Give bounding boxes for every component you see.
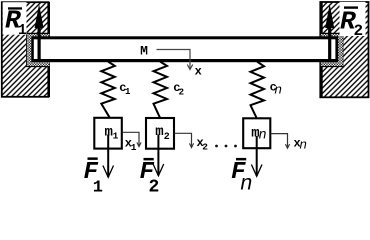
svg-text:1: 1 [131, 142, 137, 153]
svg-text:2: 2 [354, 22, 364, 40]
notch right (gap in wall) [321, 33, 344, 67]
x axis arrow of beam [157, 50, 202, 79]
svg-text:2: 2 [164, 132, 170, 143]
mass m1 box [94, 118, 122, 149]
spring cn [251, 62, 265, 118]
svg-text:2: 2 [179, 87, 184, 97]
displacement arrow x2 [175, 133, 209, 152]
mass m2 box [146, 118, 174, 149]
label c1 [119, 81, 131, 97]
label R2 [340, 2, 366, 40]
wall support right [320, 2, 368, 98]
force F2 arrow [153, 135, 164, 176]
reaction force R1 (arrow) [35, 4, 44, 61]
svg-text:n: n [274, 82, 282, 97]
beam [31, 36, 338, 62]
label c2 [173, 81, 184, 97]
svg-text:n: n [259, 129, 267, 144]
svg-text:1: 1 [113, 131, 119, 142]
displacement arrow x1 [123, 132, 142, 153]
svg-text:2: 2 [202, 142, 208, 153]
mass mn box [243, 118, 270, 148]
notch left (gap in wall) [26, 33, 50, 67]
force F1 arrow [103, 135, 114, 178]
svg-text:2: 2 [149, 178, 160, 198]
wall support left [2, 2, 49, 97]
label R1 [3, 2, 27, 39]
svg-text:x: x [195, 65, 202, 79]
force Fn arrow [251, 136, 262, 176]
spring c2 [154, 62, 168, 118]
svg-text:1: 1 [93, 179, 103, 198]
label Fn [231, 158, 253, 197]
spring c1 [101, 62, 115, 118]
label F2 [140, 158, 160, 198]
svg-text:1: 1 [125, 87, 131, 97]
ellipsis dots between x2 and mn [215, 145, 237, 148]
displacement arrow xn [271, 134, 307, 153]
svg-text:n: n [299, 138, 307, 153]
svg-text:n: n [240, 174, 253, 197]
label cn [270, 80, 282, 97]
svg-text:1: 1 [18, 23, 27, 39]
reaction force R2 (arrow) [325, 4, 334, 61]
label F1 [84, 157, 104, 197]
svg-text:M: M [140, 43, 148, 58]
svg-text:m: m [155, 124, 163, 140]
